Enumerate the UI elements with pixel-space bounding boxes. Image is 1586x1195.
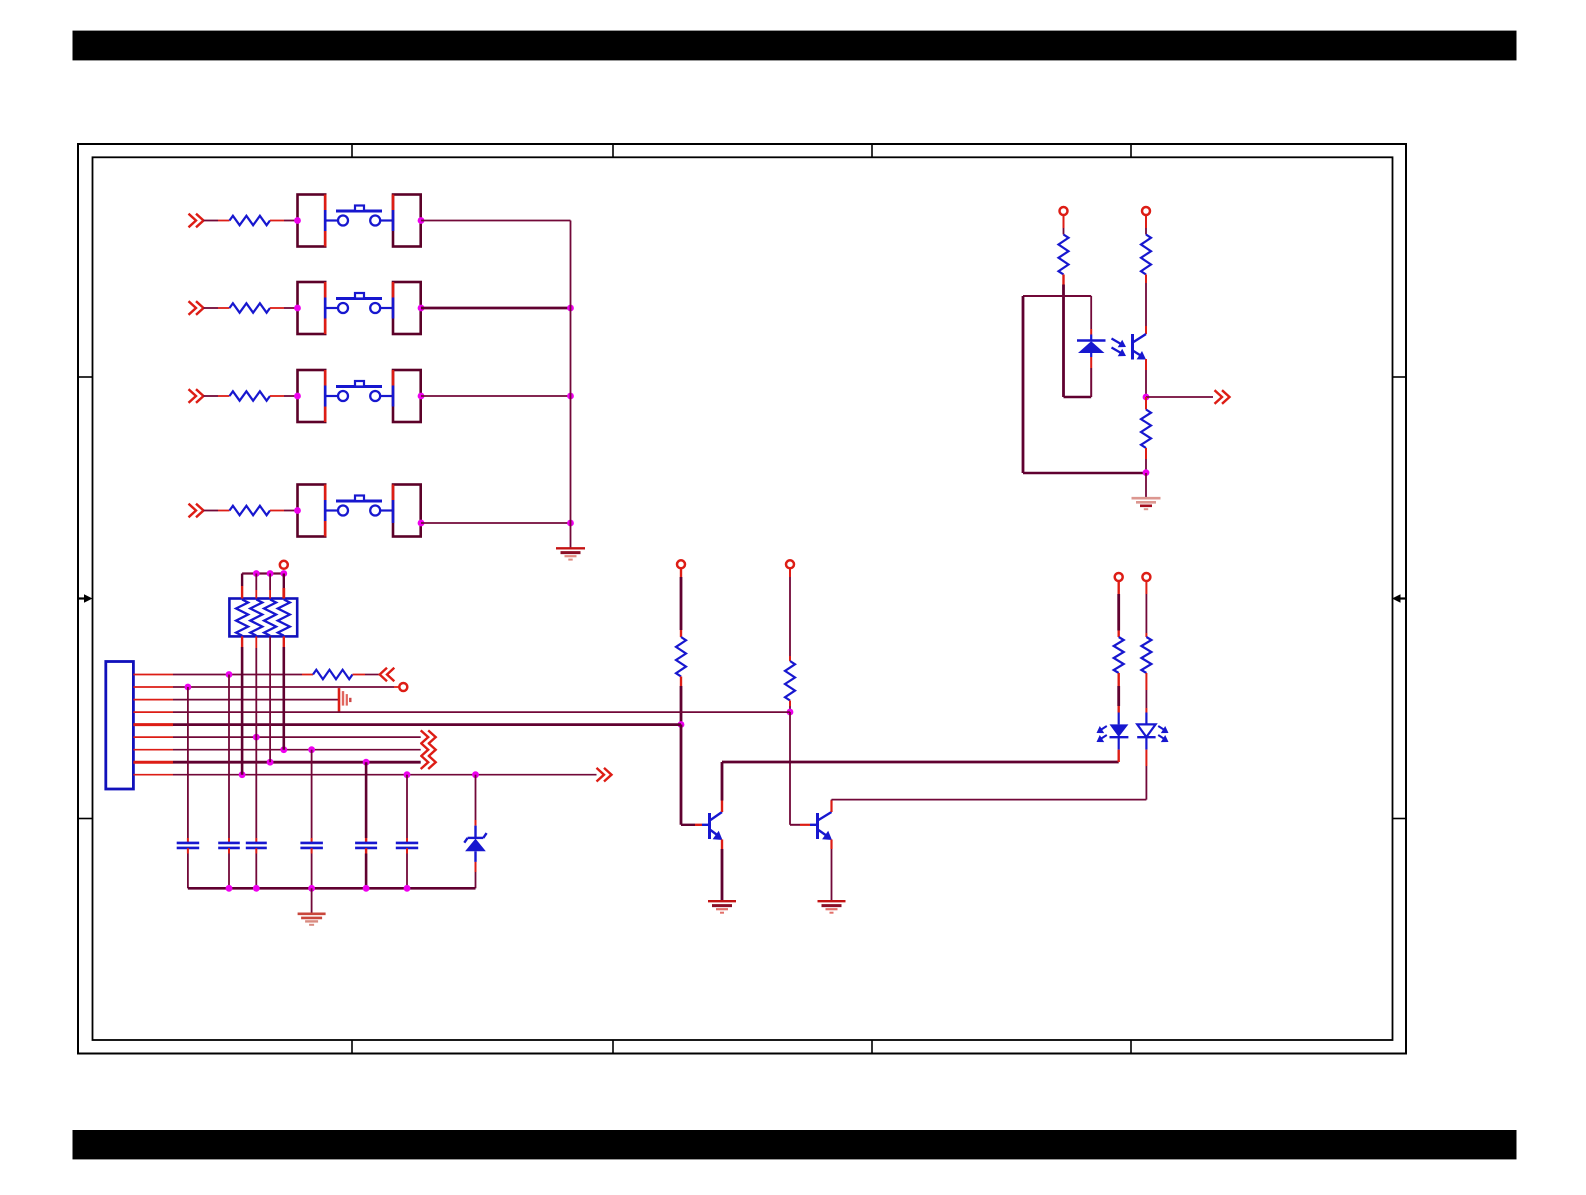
wire Q1 resistor lower	[680, 677, 682, 725]
connector J1	[106, 662, 134, 790]
wire pack element2 to pin6	[255, 636, 257, 737]
wire cap col 4 upper	[311, 750, 313, 843]
footer bar (redacted footer)	[73, 1130, 1517, 1159]
wire LED1 resistor lower	[1117, 673, 1119, 713]
border zone tick marks	[78, 144, 1406, 1054]
wire LED2 feed	[1145, 581, 1147, 637]
wire opto emitter resistor upper	[1145, 397, 1147, 410]
opto light arrows	[1112, 339, 1127, 357]
switch S2 contact block A	[298, 282, 326, 334]
node row 1 left junction	[294, 217, 301, 224]
wire opto R-right lower	[1145, 275, 1147, 335]
port supply opto collector	[1142, 207, 1150, 215]
wire opto LED anode U-bend	[1064, 368, 1092, 397]
node pack bus junction 1	[253, 570, 260, 577]
zener diode D1	[464, 826, 486, 872]
switch S1 contact block B	[393, 195, 421, 247]
wire pin8 run	[173, 761, 421, 764]
node pack bus junction 2	[267, 570, 274, 577]
port arrow pin9	[597, 768, 612, 782]
wire input row 1	[204, 220, 230, 222]
wire opto cathode loop left	[1022, 296, 1025, 473]
wire opto LED top lead	[1090, 296, 1092, 335]
wire pin2 run	[173, 686, 399, 688]
wire R2 to switch	[270, 307, 295, 309]
wire cap col 1 lower	[187, 848, 189, 888]
wire cap col 2 lower	[228, 848, 230, 888]
node row 4 left junction	[294, 507, 301, 514]
resistor opto R-right	[1141, 235, 1151, 275]
wire pin3 run	[173, 699, 339, 701]
wire Q2 resistor lower	[789, 701, 791, 713]
ground opto	[1132, 498, 1161, 509]
node ground bus junction x256	[253, 885, 260, 892]
wire Q2 collector feed	[789, 568, 791, 661]
wire zener upper	[475, 775, 477, 826]
capacitor C2	[218, 843, 240, 848]
wire R1 to switch	[270, 220, 295, 222]
port arrow pin7	[421, 743, 436, 757]
pushbutton SW2	[325, 293, 393, 313]
node bus junction row 2	[567, 305, 574, 312]
pushbutton SW4	[325, 496, 393, 516]
left border center arrow	[78, 594, 93, 602]
wire cap col 5 upper	[365, 762, 368, 842]
resistor pack RP1 body	[229, 599, 297, 637]
wire cap col 6 lower	[406, 848, 408, 888]
wire row 3 to bus	[421, 395, 571, 397]
resistor pack RP1 element 1	[236, 600, 248, 636]
wire pack top leads	[242, 574, 284, 599]
switch S2 contact block B	[393, 282, 421, 334]
wire LED1 cathode	[1117, 750, 1119, 762]
ground Q1	[708, 901, 736, 913]
resistor R2	[230, 303, 271, 312]
node bus junction row 3	[567, 393, 574, 400]
header bar (redacted title)	[73, 31, 1517, 61]
transistor Q2	[790, 812, 832, 840]
node pin7 pack junction	[280, 746, 287, 753]
inner sheet border	[93, 157, 1393, 1040]
switch S4 contact block A	[298, 485, 326, 537]
wire cap col 3 upper	[255, 737, 257, 843]
node bus junction row 4	[567, 520, 574, 527]
port supply opto anode	[1060, 207, 1068, 215]
wire Q2 collector	[830, 800, 832, 812]
node pin6 pack junction	[253, 734, 260, 741]
switch S1 contact block A	[298, 195, 326, 247]
resistor LED2	[1141, 637, 1151, 673]
node pin9 cap tap	[404, 771, 411, 778]
connector J1 pin 5 lead	[133, 723, 173, 726]
capacitor C6	[396, 843, 418, 848]
connector J1 pin 6 lead	[133, 736, 173, 738]
wire pin7 run	[173, 749, 421, 751]
LED2 light arrows	[1158, 726, 1168, 742]
node row 3 output junction	[418, 393, 425, 400]
connector J1 pin 9 lead	[133, 774, 173, 776]
node Q2 base net	[787, 709, 794, 716]
node opto output	[1143, 394, 1150, 401]
wire cap col 2 upper	[228, 675, 230, 843]
LED1 indicator (lit)	[1110, 713, 1129, 750]
wire LED2 resistor lower	[1145, 673, 1147, 713]
wire cap col 1 upper	[187, 687, 189, 843]
wire LED1 feed	[1117, 581, 1119, 637]
wire opto collector feed	[1145, 215, 1147, 235]
port supply LED1	[1115, 573, 1123, 581]
pushbutton SW1	[325, 206, 393, 226]
node row 1 output junction	[418, 217, 425, 224]
wire zener lower	[475, 872, 477, 888]
wire filter ground bus	[188, 887, 476, 890]
wire switch common bus	[570, 221, 572, 548]
node pin9 pack junction	[239, 771, 246, 778]
chassis reference pin3	[339, 688, 350, 712]
wire opto emitter	[1145, 359, 1147, 397]
wire opto R-left lower	[1062, 275, 1064, 398]
wire pin6 run	[173, 736, 421, 738]
wire pack element1 to pin9	[241, 636, 243, 774]
wire Q1 collector	[721, 762, 723, 812]
wire opto emitter resistor lower	[1145, 448, 1147, 473]
node ground bus junction x311	[308, 885, 315, 892]
wire R3 to switch	[270, 395, 295, 397]
wire input row 3	[204, 395, 230, 397]
node row 4 output junction	[418, 520, 425, 527]
port arrow pin1 (left chevron)	[380, 668, 395, 682]
connector J1 pin 8 lead	[133, 761, 173, 764]
wire Q1 collector feed	[680, 568, 682, 637]
connector J1 pin 3 lead	[133, 699, 173, 701]
pushbutton SW3	[325, 381, 393, 401]
resistor pack RP1 element 4	[278, 600, 290, 636]
node pin1 cap tap	[226, 671, 233, 678]
node row 2 left junction	[294, 305, 301, 312]
port arrow opto output	[1215, 390, 1230, 404]
port socket pack supply	[280, 561, 288, 569]
wire Q2 emitter	[830, 840, 832, 901]
resistor pack RP1 element 3	[264, 600, 276, 636]
wire opto cathode loop top	[1023, 295, 1091, 297]
wire cap col 3 lower	[255, 848, 257, 888]
resistor pin1 series	[313, 670, 353, 679]
connector J1 pin 4 lead	[133, 711, 173, 713]
port arrow pin6	[421, 730, 436, 744]
node pin8 cap tap	[363, 759, 370, 766]
wire pack common bus	[242, 572, 284, 574]
wire Q1 base drop	[680, 725, 683, 825]
wire opto output	[1146, 396, 1213, 398]
right border center arrow	[1392, 594, 1406, 602]
node pin2 cap tap	[185, 684, 192, 691]
wire cap col 4 lower	[311, 848, 313, 888]
port supply LED2	[1142, 573, 1150, 581]
wire opto ground return	[1023, 472, 1146, 474]
port arrow pin8	[421, 755, 436, 769]
node Q1 base net	[678, 721, 685, 728]
node opto ground junction	[1143, 469, 1150, 476]
LED1 light arrows	[1097, 726, 1107, 742]
wire cap col 6 upper	[406, 775, 408, 843]
switch S3 contact block B	[393, 370, 421, 422]
wire row 2 to bus	[421, 307, 571, 310]
node pin7 cap tap	[308, 746, 315, 753]
port arrow input row 1	[189, 214, 204, 228]
wire opto anode feed	[1063, 215, 1065, 235]
wire Q1 emitter	[721, 840, 723, 901]
resistor R1	[230, 216, 271, 225]
node row 3 left junction	[294, 393, 301, 400]
outer sheet border	[78, 144, 1406, 1054]
wire row 4 to bus	[421, 522, 571, 524]
node pin9 zener tap	[472, 771, 479, 778]
node ground bus junction x407	[404, 885, 411, 892]
transistor Q1	[681, 812, 723, 840]
ground Q2	[818, 901, 846, 913]
wire pin1 to port	[353, 674, 381, 676]
resistor opto R-left	[1059, 235, 1069, 275]
wire pin9 run	[173, 774, 597, 776]
node ground bus junction x229	[226, 885, 233, 892]
port supply Q2	[786, 560, 794, 568]
ground filter bus	[298, 914, 326, 925]
wire pin4 run to Q2 base	[173, 711, 790, 713]
capacitor C5	[355, 843, 377, 848]
LED opto emitter diode	[1077, 335, 1106, 369]
wire cap col 5 lower	[365, 848, 367, 888]
port socket pin2	[399, 683, 407, 691]
resistor opto emitter	[1141, 410, 1151, 449]
wire R4 to switch	[270, 510, 295, 512]
wire ground stem	[311, 888, 313, 913]
wire Q1 collector rail	[722, 761, 1119, 764]
wire Q2 collector rail	[832, 799, 1147, 801]
resistor R4	[230, 506, 271, 515]
wire pack element4 to pin7	[283, 636, 285, 749]
wire pin1 run	[173, 674, 313, 676]
node ground bus junction x366	[363, 885, 370, 892]
wire input row 4	[204, 510, 230, 512]
wire opto to ground	[1145, 473, 1147, 498]
wire LED2 cathode	[1145, 750, 1147, 800]
connector J1 pin 7 lead	[133, 749, 173, 751]
node pack bus junction 3	[280, 570, 287, 577]
port arrow input row 4	[189, 504, 204, 518]
ground switch bus	[556, 548, 585, 559]
resistor LED1	[1114, 637, 1124, 673]
wire pin5 run to Q1 base	[173, 723, 681, 726]
resistor Q1 base pull-up	[676, 637, 686, 677]
capacitor C3	[246, 843, 267, 848]
wire pack element3 to pin8	[269, 636, 271, 762]
resistor pack RP1 element 2	[250, 600, 262, 636]
wire Q2 base drop	[789, 712, 791, 825]
resistor R3	[230, 391, 271, 400]
switch S4 contact block B	[393, 485, 421, 537]
capacitor C1	[177, 843, 200, 848]
capacitor C4	[300, 843, 323, 848]
node pin8 pack junction	[267, 759, 274, 766]
wire row 1 to bus	[421, 220, 571, 222]
node row 2 output junction	[418, 305, 425, 312]
port arrow input row 3	[189, 389, 204, 403]
port arrow input row 2	[189, 301, 204, 315]
resistor Q2 base pull-up	[785, 661, 795, 701]
port supply Q1	[677, 560, 685, 568]
switch S3 contact block A	[298, 370, 326, 422]
connector J1 pin 1 lead	[133, 674, 173, 676]
phototransistor opto	[1133, 334, 1147, 360]
connector J1 pin 2 lead	[133, 686, 173, 688]
LED2 indicator (off)	[1137, 713, 1155, 750]
wire input row 2	[204, 307, 230, 309]
